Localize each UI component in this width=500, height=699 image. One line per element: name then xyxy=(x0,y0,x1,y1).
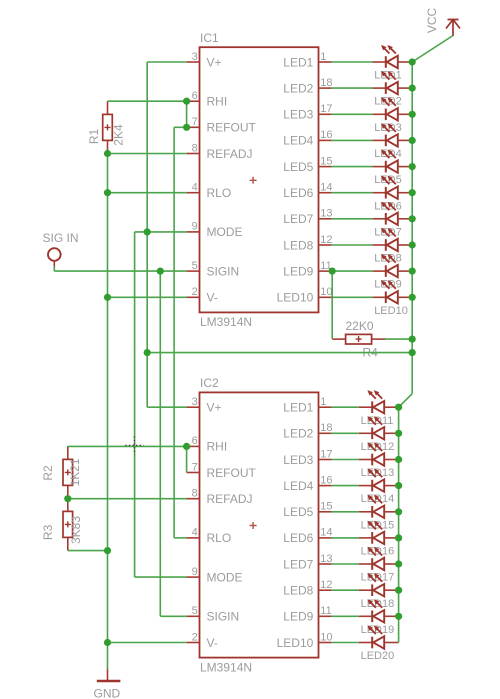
IC IC2 pin 18 (LED2) lead xyxy=(319,432,332,434)
IC IC2 pin 7 (REFOUT) lead xyxy=(187,472,200,474)
IC IC1 LM3914N body xyxy=(200,47,319,312)
IC IC2 pin 14 (LED6) lead xyxy=(319,537,332,539)
wire RLO IC1 row xyxy=(108,192,187,194)
svg-text:REFADJ: REFADJ xyxy=(207,492,253,506)
junction LED5 anode / rail xyxy=(409,163,416,170)
wire RHI-REFOUT strap IC1 xyxy=(186,101,188,127)
LED20 diode symbol xyxy=(359,625,399,648)
wire IC1 pin 11 to LED9 xyxy=(332,270,373,272)
wire VCC rail upper vertical xyxy=(411,62,413,394)
LED3 diode symbol xyxy=(372,97,412,120)
svg-text:16: 16 xyxy=(320,474,332,486)
wire RHI IC2 row (R2 top) xyxy=(68,445,187,447)
svg-text:LED20: LED20 xyxy=(361,650,395,662)
wire LED9 tap vertical to R4 xyxy=(331,271,333,339)
LED8 diode symbol xyxy=(372,228,412,251)
svg-text:17: 17 xyxy=(320,448,332,460)
junction V-1 xyxy=(104,294,111,301)
junction REFOUT1 pin 7 xyxy=(183,124,190,131)
LED12 diode symbol xyxy=(359,416,399,439)
IC IC1 pin 8 (REFADJ) lead xyxy=(187,153,200,155)
svg-text:LED5: LED5 xyxy=(283,160,313,174)
wire IC1 pin 1 to LED1 xyxy=(332,61,373,63)
wire IC2 pin 11 to LED19 xyxy=(332,615,359,617)
wire V- IC1 row xyxy=(108,296,187,298)
svg-text:9: 9 xyxy=(192,221,198,233)
IC IC1 pin 4 (RLO) lead xyxy=(187,192,200,194)
LED1 diode symbol xyxy=(372,45,412,68)
IC IC2 pin 17 (LED3) lead xyxy=(319,459,332,461)
svg-text:6: 6 xyxy=(192,435,198,447)
junction LED7 anode / rail xyxy=(409,215,416,222)
IC IC1 pin 17 (LED3) lead xyxy=(319,113,332,115)
svg-text:7: 7 xyxy=(192,461,198,473)
IC IC2 pin 5 (SIGIN) lead xyxy=(187,615,200,617)
svg-text:LED8: LED8 xyxy=(283,584,313,598)
svg-text:2: 2 xyxy=(192,286,198,298)
IC IC2 pin 13 (LED7) lead xyxy=(319,563,332,565)
wire IC1 pin 18 to LED2 xyxy=(332,87,373,89)
svg-text:14: 14 xyxy=(320,527,332,539)
IC IC2 pin 10 (LED10) lead xyxy=(319,642,332,644)
svg-text:15: 15 xyxy=(320,501,332,513)
svg-text:V+: V+ xyxy=(207,401,222,415)
IC IC1 pin 3 (V+) lead xyxy=(187,61,200,63)
IC IC2 pin 11 (LED9) lead xyxy=(319,615,332,617)
IC IC1 pin 6 (RHI) lead xyxy=(187,100,200,102)
IC IC1 pin 2 (V-) lead xyxy=(187,296,200,298)
junction MODE1 / V+ net xyxy=(144,228,151,235)
svg-text:LED1: LED1 xyxy=(283,401,313,415)
svg-text:MODE: MODE xyxy=(207,570,243,584)
IC IC2 pin 6 (RHI) lead xyxy=(187,445,200,447)
svg-text:RLO: RLO xyxy=(207,531,232,545)
IC IC1 origin cross xyxy=(250,177,257,184)
junction REFADJ1 / R1 bottom xyxy=(104,150,111,157)
svg-text:LED10: LED10 xyxy=(374,305,408,317)
svg-text:18: 18 xyxy=(320,422,332,434)
junction RLO1 xyxy=(104,189,111,196)
wire IC1 pin 10 to LED10 xyxy=(332,296,373,298)
IC IC2 LM3914N body xyxy=(200,392,319,657)
wire IC2 pin 1 to LED11 xyxy=(332,406,359,408)
svg-text:V+: V+ xyxy=(207,55,222,69)
VCC supply symbol xyxy=(446,20,460,37)
svg-text:LM3914N: LM3914N xyxy=(200,315,252,329)
wire RHI IC1 row (R1 top) xyxy=(108,100,187,102)
wire IC1 pin 13 to LED7 xyxy=(332,218,373,220)
svg-text:R2: R2 xyxy=(41,465,55,481)
svg-text:RHI: RHI xyxy=(207,440,228,454)
wire IC2 pin 15 to LED15 xyxy=(332,511,359,513)
LED11 diode symbol xyxy=(359,390,399,413)
LED6 diode symbol xyxy=(372,176,412,199)
resistor R2 (1K21) xyxy=(63,446,73,498)
IC IC2 origin cross xyxy=(250,522,257,529)
wire VCC feed horizontal (long) xyxy=(147,352,412,354)
svg-text:LED7: LED7 xyxy=(283,557,313,571)
IC IC1 pin 18 (LED2) lead xyxy=(319,87,332,89)
svg-text:3: 3 xyxy=(192,396,198,408)
IC IC1 pin 14 (LED6) lead xyxy=(319,192,332,194)
wire R3 bottom row xyxy=(68,550,108,552)
IC IC2 pin 3 (V+) lead xyxy=(187,406,200,408)
wire MODE IC2 row xyxy=(135,576,187,578)
svg-text:REFOUT: REFOUT xyxy=(207,121,257,135)
wire IC2 pin 14 to LED16 xyxy=(332,537,359,539)
svg-text:LED3: LED3 xyxy=(283,108,313,122)
svg-text:LED5: LED5 xyxy=(283,505,313,519)
svg-text:LED2: LED2 xyxy=(283,81,313,95)
svg-text:IC1: IC1 xyxy=(200,31,219,45)
svg-text:SIG IN: SIG IN xyxy=(43,231,79,245)
svg-text:LED3: LED3 xyxy=(283,453,313,467)
wire SIGIN IC2 row xyxy=(160,615,186,617)
wire SIG IN drop xyxy=(53,266,55,271)
resistor R1 (2K4) xyxy=(103,101,113,153)
IC IC1 pin 9 (MODE) lead xyxy=(187,231,200,233)
junction R4 right / rail xyxy=(409,336,416,343)
wire V+ net vertical xyxy=(146,62,148,407)
svg-text:LM3914N: LM3914N xyxy=(200,660,252,674)
IC IC2 pin 15 (LED5) lead xyxy=(319,511,332,513)
IC IC1 pin 15 (LED5) lead xyxy=(319,166,332,168)
IC IC2 pin 9 (MODE) lead xyxy=(187,576,200,578)
svg-text:LED6: LED6 xyxy=(283,186,313,200)
junction LED10 anode / rail xyxy=(409,294,416,301)
IC IC2 pin 8 (REFADJ) lead xyxy=(187,498,200,500)
junction LED11 anode / rail xyxy=(395,404,402,411)
junction R3 bottom / ground net xyxy=(104,547,111,554)
wire VCC arrow feed diagonal xyxy=(412,36,453,63)
wire V+ IC2 row xyxy=(147,406,186,408)
junction GND node xyxy=(104,639,111,646)
svg-text:LED1: LED1 xyxy=(283,55,313,69)
junction SIGIN net xyxy=(157,268,164,275)
svg-text:VCC: VCC xyxy=(425,8,439,34)
svg-text:LED9: LED9 xyxy=(283,610,313,624)
IC IC2 pin 12 (LED8) lead xyxy=(319,589,332,591)
SIG IN pin circle xyxy=(48,248,61,261)
svg-text:12: 12 xyxy=(320,234,332,246)
junction LED12 anode / rail xyxy=(395,430,402,437)
wire RLO IC2 row xyxy=(174,537,187,539)
svg-text:8: 8 xyxy=(192,488,198,500)
LED2 diode symbol xyxy=(372,71,412,94)
svg-text:LED8: LED8 xyxy=(283,238,313,252)
svg-text:LED10: LED10 xyxy=(277,636,314,650)
IC IC1 pin 7 (REFOUT) lead xyxy=(187,126,200,128)
wire RHI-REFOUT strap IC2 xyxy=(186,446,188,472)
junction RHI2 pin 6 xyxy=(183,443,190,450)
wire V- IC2 / GND row xyxy=(108,642,187,644)
wire IC2 pin 18 to LED12 xyxy=(332,432,359,434)
svg-text:1: 1 xyxy=(320,51,326,63)
wire IC1 pin 16 to LED4 xyxy=(332,139,373,141)
junction LED6 anode / rail xyxy=(409,189,416,196)
svg-text:SIGIN: SIGIN xyxy=(207,610,240,624)
LED14 diode symbol xyxy=(359,469,399,492)
wire V+ IC1 row xyxy=(147,61,186,63)
wire IC1 pin 15 to LED5 xyxy=(332,166,373,168)
svg-text:9: 9 xyxy=(192,566,198,578)
svg-text:6: 6 xyxy=(192,90,198,102)
IC IC2 pin 1 (LED1) lead xyxy=(319,406,332,408)
junction LED14 anode / rail xyxy=(395,482,402,489)
LED16 diode symbol xyxy=(359,521,399,544)
svg-text:1K21: 1K21 xyxy=(68,458,82,486)
wire IC2 pin 16 to LED14 xyxy=(332,485,359,487)
junction LED15 anode / rail xyxy=(395,508,402,515)
LED4 diode symbol xyxy=(372,123,412,146)
LED17 diode symbol xyxy=(359,547,399,570)
svg-text:1: 1 xyxy=(320,396,326,408)
svg-text:5: 5 xyxy=(192,260,198,272)
LED19 diode symbol xyxy=(359,599,399,622)
LED5 diode symbol xyxy=(372,150,412,173)
svg-text:2K4: 2K4 xyxy=(112,124,126,146)
wire SIGIN IC1 row xyxy=(54,270,186,272)
IC IC2 pin 4 (RLO) lead xyxy=(187,537,200,539)
IC IC1 pin 5 (SIGIN) lead xyxy=(187,270,200,272)
IC IC1 pin 12 (LED8) lead xyxy=(319,244,332,246)
svg-text:12: 12 xyxy=(320,579,332,591)
wire REFADJ IC2 row (R2/R3 mid) xyxy=(68,498,187,500)
wire IC2 pin 10 to LED20 xyxy=(332,642,359,644)
svg-text:18: 18 xyxy=(320,77,332,89)
svg-text:14: 14 xyxy=(320,182,332,194)
LED9 diode symbol xyxy=(372,254,412,277)
wire IC2 pin 13 to LED17 xyxy=(332,563,359,565)
svg-text:4: 4 xyxy=(192,527,198,539)
svg-text:11: 11 xyxy=(320,605,331,617)
wire REFOUT IC1 elbow xyxy=(174,126,187,128)
svg-text:4: 4 xyxy=(192,182,198,194)
wire SIGIN net vertical xyxy=(159,271,161,616)
IC IC1 pin 13 (LED7) lead xyxy=(319,218,332,220)
junction LED3 anode / rail xyxy=(409,111,416,118)
svg-text:15: 15 xyxy=(320,155,332,167)
wire IC2 pin 17 to LED13 xyxy=(332,459,359,461)
svg-text:10: 10 xyxy=(320,286,332,298)
wire IC1 pin 12 to LED8 xyxy=(332,244,373,246)
svg-text:8: 8 xyxy=(192,142,198,154)
svg-text:V-: V- xyxy=(207,291,218,305)
junction long wire / rail xyxy=(409,349,416,356)
svg-text:SIGIN: SIGIN xyxy=(207,264,240,278)
GND bar xyxy=(97,680,121,682)
wire R4 right to rail xyxy=(385,338,412,340)
svg-text:LED2: LED2 xyxy=(283,427,313,441)
junction LED16 anode / rail xyxy=(395,534,402,541)
svg-text:LED6: LED6 xyxy=(283,531,313,545)
svg-text:16: 16 xyxy=(320,129,332,141)
svg-text:13: 13 xyxy=(320,553,332,565)
svg-text:22K0: 22K0 xyxy=(346,319,374,333)
IC IC1 pin 1 (LED1) lead xyxy=(319,61,332,63)
junction LED8 anode / rail xyxy=(409,241,416,248)
svg-text:17: 17 xyxy=(320,103,332,115)
svg-text:5: 5 xyxy=(192,605,198,617)
GND pin lead xyxy=(107,669,109,681)
junction LED1 anode / rail xyxy=(409,58,416,65)
svg-text:IC2: IC2 xyxy=(200,376,219,390)
wire MODE IC1 row xyxy=(135,231,187,233)
wire VCC rail jog diagonal xyxy=(399,394,413,408)
svg-text:3K83: 3K83 xyxy=(69,516,83,544)
junction RHI1 pin 6 xyxy=(183,98,190,105)
svg-text:V-: V- xyxy=(207,636,218,650)
junction LED17 anode / rail xyxy=(395,560,402,567)
svg-text:R1: R1 xyxy=(87,129,101,145)
resistor R3 (3K83) xyxy=(63,498,73,550)
resistor R4 (22K0) xyxy=(332,334,385,344)
svg-text:REFOUT: REFOUT xyxy=(207,466,257,480)
wire REFOUT1 to RLO2 vertical xyxy=(173,127,175,538)
wire IC1 pin 14 to LED6 xyxy=(332,192,373,194)
svg-text:LED10: LED10 xyxy=(277,291,314,305)
wire IC1 pin 17 to LED3 xyxy=(332,113,373,115)
svg-text:3: 3 xyxy=(192,51,198,63)
svg-text:GND: GND xyxy=(94,687,121,699)
wire ground net vertical xyxy=(107,154,109,670)
svg-text:RLO: RLO xyxy=(207,186,232,200)
wire VCC rail lower vertical xyxy=(398,407,400,642)
IC IC1 pin 11 (LED9) lead xyxy=(319,270,332,272)
LED13 diode symbol xyxy=(359,442,399,465)
svg-text:10: 10 xyxy=(320,631,332,643)
junction IC1 pin 11 / R4 tap xyxy=(329,268,336,275)
wire REFADJ IC1 row xyxy=(108,153,187,155)
svg-text:7: 7 xyxy=(192,116,198,128)
svg-text:RHI: RHI xyxy=(207,95,228,109)
IC IC1 pin 10 (LED10) lead xyxy=(319,296,332,298)
junction LED13 anode / rail xyxy=(395,456,402,463)
wire IC2 pin 12 to LED18 xyxy=(332,589,359,591)
svg-text:13: 13 xyxy=(320,208,332,220)
LED18 diode symbol xyxy=(359,573,399,596)
junction LED9 anode / rail xyxy=(409,268,416,275)
IC IC2 pin 2 (V-) lead xyxy=(187,642,200,644)
LED10 diode symbol xyxy=(372,280,412,303)
junction V+ vertical / long wire xyxy=(144,349,151,356)
svg-text:MODE: MODE xyxy=(207,225,243,239)
junction LED4 anode / rail xyxy=(409,137,416,144)
svg-text:2: 2 xyxy=(192,631,198,643)
IC IC2 pin 16 (LED4) lead xyxy=(319,485,332,487)
svg-text:LED9: LED9 xyxy=(283,264,313,278)
wire MODE net vertical xyxy=(134,232,136,577)
LED15 diode symbol xyxy=(359,495,399,518)
SIG IN pin lead xyxy=(53,261,55,267)
junction R2/R3 midpoint xyxy=(64,495,71,502)
svg-text:REFADJ: REFADJ xyxy=(207,147,253,161)
junction LED18 anode / rail xyxy=(395,587,402,594)
svg-text:LED7: LED7 xyxy=(283,212,313,226)
junction LED19 anode / rail xyxy=(395,613,402,620)
junction LED2 anode / rail xyxy=(409,85,416,92)
svg-text:R3: R3 xyxy=(41,524,55,540)
LED7 diode symbol xyxy=(372,202,412,225)
cursor crosshair xyxy=(125,436,143,454)
svg-text:LED4: LED4 xyxy=(283,134,313,148)
IC IC1 pin 16 (LED4) lead xyxy=(319,139,332,141)
svg-text:LED4: LED4 xyxy=(283,479,313,493)
